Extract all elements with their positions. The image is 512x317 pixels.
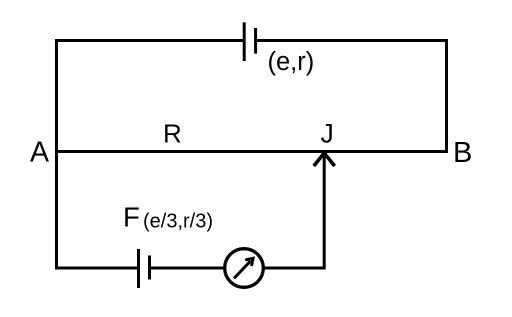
svg-text:B: B [453,137,472,169]
svg-text:(e,r): (e,r) [268,48,315,76]
svg-text:F: F [123,202,140,233]
svg-text:A: A [30,136,49,168]
svg-text:J: J [321,119,334,149]
svg-text:(e/3,r/3): (e/3,r/3) [143,210,213,232]
svg-text:R: R [163,119,182,149]
